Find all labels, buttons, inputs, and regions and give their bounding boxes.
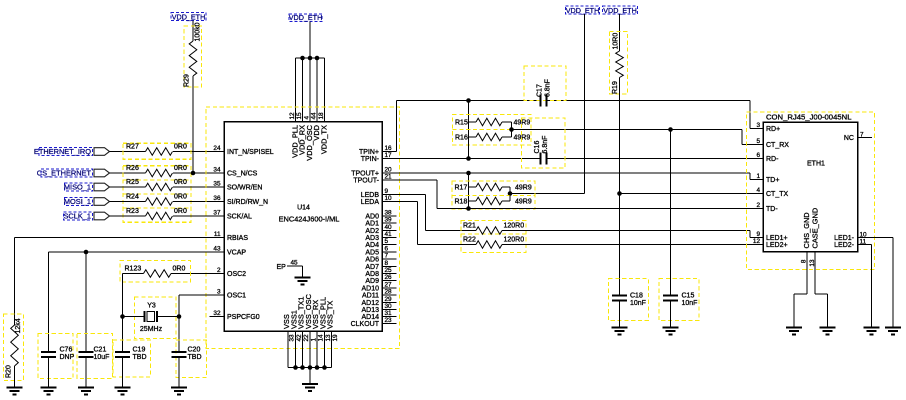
svg-text:AD14: AD14 bbox=[361, 314, 379, 321]
svg-text:AD4: AD4 bbox=[365, 242, 379, 249]
svg-text:33: 33 bbox=[289, 334, 296, 342]
svg-text:2: 2 bbox=[756, 202, 760, 209]
resistor R26 0R0 bbox=[123, 166, 191, 223]
svg-text:PSPCFG0: PSPCFG0 bbox=[227, 314, 260, 321]
wire R24 row bbox=[110, 201, 146, 203]
wire RBIAS bbox=[15, 237, 225, 239]
svg-text:24: 24 bbox=[213, 145, 221, 152]
svg-text:18: 18 bbox=[318, 112, 325, 120]
wire LEDA to R22 bbox=[382, 201, 418, 203]
svg-text:25MHz: 25MHz bbox=[140, 326, 163, 333]
wire VDD_ETH to VDD bus bbox=[309, 22, 311, 59]
svg-text:3: 3 bbox=[756, 122, 760, 129]
wire R17 right bbox=[502, 186, 510, 188]
svg-text:38: 38 bbox=[385, 210, 393, 217]
svg-text:SCK/AL: SCK/AL bbox=[227, 213, 252, 220]
svg-text:17: 17 bbox=[385, 152, 393, 159]
svg-text:R15: R15 bbox=[455, 119, 468, 126]
svg-text:VDD_ETH: VDD_ETH bbox=[172, 12, 206, 21]
svg-text:21: 21 bbox=[385, 174, 393, 181]
svg-text:LED1-: LED1- bbox=[834, 235, 855, 242]
svg-text:EP: EP bbox=[277, 264, 287, 271]
svg-text:0R0: 0R0 bbox=[174, 208, 187, 215]
ground CASE_GND bbox=[820, 327, 836, 329]
svg-text:LEDA: LEDA bbox=[361, 199, 380, 206]
svg-text:R20: R20 bbox=[6, 365, 13, 378]
svg-text:C19: C19 bbox=[133, 347, 146, 354]
svg-text:RBIAS: RBIAS bbox=[227, 235, 248, 242]
svg-text:40: 40 bbox=[385, 224, 393, 231]
capacitor C18 10nF bbox=[609, 279, 649, 321]
net label VDD_ETH (bias) bbox=[566, 6, 600, 14]
svg-text:9: 9 bbox=[385, 188, 389, 195]
svg-text:TPOUT+: TPOUT+ bbox=[351, 170, 379, 177]
wire C20 to ground bbox=[178, 357, 180, 388]
wire R15 right bbox=[502, 121, 512, 123]
capacitor C16 6.8nF bbox=[522, 118, 566, 168]
svg-text:ENC424J600-I/ML: ENC424J600-I/ML bbox=[279, 215, 340, 224]
wire R16 lead bbox=[468, 137, 470, 159]
wire R27 row bbox=[110, 151, 146, 153]
resistor R23 0R0 bbox=[146, 212, 173, 220]
svg-text:MISO_1: MISO_1 bbox=[64, 183, 91, 192]
port arrow ETHERNET_IRQ bbox=[94, 148, 110, 156]
svg-text:R17: R17 bbox=[455, 184, 468, 191]
ground VSS bbox=[302, 383, 318, 385]
wire CT_TX bbox=[620, 193, 764, 195]
svg-text:Y3: Y3 bbox=[147, 303, 156, 310]
resistor R21 120R0 bbox=[461, 221, 526, 253]
svg-text:36: 36 bbox=[213, 195, 221, 202]
svg-text:0R0: 0R0 bbox=[174, 193, 187, 200]
wire R17 lead bbox=[468, 173, 470, 187]
svg-text:AD8: AD8 bbox=[365, 271, 379, 278]
resistor R27 0R0 bbox=[123, 143, 191, 159]
resistor R22 120R0 bbox=[476, 241, 502, 249]
svg-text:AD10: AD10 bbox=[361, 285, 379, 292]
svg-text:AD11: AD11 bbox=[362, 292, 379, 299]
net label VDD_ETH (R19) bbox=[603, 6, 638, 14]
capacitor C17 6.8nF bbox=[524, 66, 566, 101]
svg-text:AD5: AD5 bbox=[365, 249, 379, 256]
svg-text:120R0: 120R0 bbox=[504, 236, 525, 243]
svg-text:0R0: 0R0 bbox=[174, 143, 187, 150]
net label ETHERNET_IRQ bbox=[39, 147, 93, 155]
svg-text:39: 39 bbox=[385, 217, 393, 224]
svg-text:5: 5 bbox=[385, 238, 389, 245]
svg-text:20: 20 bbox=[385, 167, 393, 174]
resistor R19 10R0 bbox=[610, 32, 628, 95]
wire C19 to ground bbox=[122, 357, 124, 388]
connector ETH1 CON_RJ45_J00-0045NL bbox=[753, 113, 867, 267]
svg-text:6.8nF: 6.8nF bbox=[545, 79, 552, 97]
wire TPIN- to RD- bbox=[382, 158, 541, 160]
svg-text:AD12: AD12 bbox=[361, 300, 379, 307]
wire C76 lead bbox=[48, 252, 50, 352]
wire VSS pins to ground bus bbox=[287, 331, 289, 368]
wire CASE_GND bbox=[814, 252, 816, 295]
svg-text:11: 11 bbox=[214, 231, 221, 238]
ground C19 bbox=[115, 387, 131, 389]
svg-text:C17: C17 bbox=[537, 84, 544, 97]
svg-text:OSC2: OSC2 bbox=[227, 271, 246, 278]
svg-text:0R0: 0R0 bbox=[174, 179, 187, 186]
yellow variant box around U14 bbox=[206, 107, 400, 349]
wire VCAP bbox=[49, 251, 225, 253]
svg-text:0R0: 0R0 bbox=[173, 265, 186, 272]
wire VDD_ETH to R29 bbox=[192, 21, 194, 42]
wire C20 lead bbox=[178, 317, 180, 353]
svg-text:VCAP: VCAP bbox=[227, 249, 246, 256]
wire C21 lead bbox=[85, 252, 87, 352]
svg-text:INT_N/SPISEL: INT_N/SPISEL bbox=[227, 149, 274, 156]
net label VDD_ETH (above U14) bbox=[289, 14, 322, 22]
svg-text:37: 37 bbox=[213, 210, 221, 217]
svg-text:42: 42 bbox=[296, 334, 303, 342]
svg-text:U14: U14 bbox=[297, 205, 310, 212]
ground C21 bbox=[78, 387, 94, 389]
svg-text:AD13: AD13 bbox=[361, 307, 379, 314]
svg-text:DNP: DNP bbox=[60, 354, 75, 361]
svg-text:R24: R24 bbox=[126, 193, 139, 200]
wire OSC2 row bbox=[171, 273, 224, 275]
ground R20 bbox=[7, 387, 23, 389]
resistor R15 49R9 bbox=[453, 115, 532, 146]
port arrow MOSI_1 bbox=[94, 198, 110, 206]
svg-text:4: 4 bbox=[756, 187, 760, 194]
capacitor C15 10nF bbox=[659, 279, 699, 321]
svg-text:R16: R16 bbox=[455, 134, 468, 141]
svg-text:SI/RD/RW_N: SI/RD/RW_N bbox=[227, 199, 268, 206]
svg-text:6.8nF: 6.8nF bbox=[542, 136, 549, 154]
svg-text:LEDB: LEDB bbox=[361, 192, 380, 199]
svg-text:15: 15 bbox=[296, 112, 303, 120]
wire R19 to CT_TX node bbox=[619, 78, 621, 296]
svg-text:7: 7 bbox=[385, 253, 389, 260]
svg-text:VDD_ETH: VDD_ETH bbox=[289, 13, 323, 22]
resistor R25 0R0 bbox=[146, 183, 173, 191]
svg-text:12: 12 bbox=[753, 238, 761, 245]
svg-text:45: 45 bbox=[291, 260, 299, 267]
svg-text:44: 44 bbox=[311, 112, 318, 120]
svg-text:100k0: 100k0 bbox=[195, 22, 202, 41]
svg-text:R18: R18 bbox=[455, 198, 468, 205]
wire EP pad bbox=[287, 265, 303, 267]
ground C18 bbox=[612, 327, 628, 329]
resistor R16 49R9 bbox=[476, 133, 502, 141]
svg-text:49R9: 49R9 bbox=[515, 198, 532, 205]
svg-text:25: 25 bbox=[385, 267, 393, 274]
svg-text:CLKOUT: CLKOUT bbox=[351, 321, 380, 328]
svg-text:TPIN+: TPIN+ bbox=[359, 149, 379, 156]
ground C15 bbox=[663, 327, 679, 329]
wire C15 lead bbox=[670, 130, 672, 296]
svg-text:R27: R27 bbox=[126, 143, 139, 150]
svg-text:19: 19 bbox=[332, 334, 339, 342]
ground C20 bbox=[171, 387, 187, 389]
svg-text:LED2-: LED2- bbox=[834, 242, 855, 249]
svg-text:12k4: 12k4 bbox=[15, 318, 22, 333]
svg-text:22: 22 bbox=[303, 334, 310, 342]
svg-text:AD7: AD7 bbox=[365, 264, 379, 271]
svg-text:C20: C20 bbox=[188, 347, 201, 354]
capacitor C76 DNP bbox=[38, 334, 73, 379]
svg-text:R25: R25 bbox=[126, 179, 139, 186]
svg-text:10nF: 10nF bbox=[630, 300, 646, 307]
svg-text:9: 9 bbox=[756, 231, 760, 238]
wire R21 to LED1+ bbox=[502, 230, 750, 232]
svg-text:VDD_TX: VDD_TX bbox=[320, 125, 329, 154]
wire R23 row bbox=[110, 215, 146, 217]
port arrow CS_ETHERNET bbox=[94, 169, 110, 177]
svg-text:10uF: 10uF bbox=[94, 354, 110, 361]
wire R20 to ground bbox=[14, 366, 16, 388]
net label MOSI_1 bbox=[65, 197, 93, 205]
wire LED2- bbox=[858, 244, 872, 246]
svg-text:6: 6 bbox=[756, 152, 760, 159]
wire C76 to ground bbox=[48, 357, 50, 388]
svg-text:TBD: TBD bbox=[133, 354, 147, 361]
capacitor C21 10uF bbox=[77, 334, 113, 379]
capacitor C20 TBD bbox=[176, 340, 207, 378]
svg-text:27: 27 bbox=[385, 282, 393, 289]
svg-text:TPIN-: TPIN- bbox=[361, 156, 380, 163]
net label MISO_1 bbox=[65, 183, 93, 191]
svg-text:NC: NC bbox=[844, 135, 854, 142]
svg-text:AD1: AD1 bbox=[365, 220, 379, 227]
wire R15 lead bbox=[468, 101, 470, 123]
wire VDD bus bbox=[296, 57, 325, 59]
svg-text:28: 28 bbox=[385, 289, 393, 296]
wire TPOUT- to TD- bbox=[382, 179, 437, 181]
svg-text:C76: C76 bbox=[60, 347, 73, 354]
svg-text:VDD_ETH: VDD_ETH bbox=[566, 6, 600, 15]
op-amp U14 ENC424J600-I/ML (ethernet controller IC) bbox=[213, 112, 392, 342]
svg-text:ETH1: ETH1 bbox=[807, 161, 825, 168]
svg-text:30: 30 bbox=[385, 303, 393, 310]
svg-text:1: 1 bbox=[311, 338, 318, 342]
svg-text:C18: C18 bbox=[630, 293, 643, 300]
svg-text:R123: R123 bbox=[125, 265, 142, 272]
wire R16 right bbox=[502, 136, 512, 138]
svg-text:C21: C21 bbox=[94, 347, 107, 354]
svg-text:13: 13 bbox=[325, 334, 332, 342]
svg-text:VSS_TX: VSS_TX bbox=[326, 301, 335, 329]
wire OSC1 row bbox=[179, 294, 224, 296]
svg-text:34: 34 bbox=[213, 167, 221, 174]
svg-text:TBD: TBD bbox=[188, 354, 202, 361]
resistor R123 0R0 bbox=[120, 261, 191, 283]
svg-text:4: 4 bbox=[304, 116, 311, 120]
svg-text:TPOUT-: TPOUT- bbox=[353, 177, 379, 184]
port arrow SCLK_1 bbox=[94, 212, 110, 220]
svg-text:CASE_GND: CASE_GND bbox=[811, 208, 820, 249]
svg-text:CON_RJ45_J00-0045NL: CON_RJ45_J00-0045NL bbox=[766, 113, 852, 122]
wire C15 to ground bbox=[670, 301, 672, 328]
wire CT_RX bbox=[512, 129, 743, 131]
ground C76 bbox=[41, 387, 57, 389]
svg-text:41: 41 bbox=[385, 231, 393, 238]
wire TPIN+ to RD+ bbox=[382, 151, 397, 153]
svg-text:5: 5 bbox=[756, 138, 760, 145]
resistor R29 100k0 bbox=[184, 26, 202, 87]
svg-text:2: 2 bbox=[217, 267, 221, 274]
svg-text:23: 23 bbox=[385, 317, 393, 324]
svg-text:43: 43 bbox=[213, 246, 221, 253]
svg-text:R29: R29 bbox=[184, 74, 191, 87]
ground CHS_GND bbox=[786, 327, 802, 329]
wire R22 to LED2+ bbox=[502, 244, 763, 246]
svg-text:10R0: 10R0 bbox=[613, 33, 620, 50]
svg-text:0R0: 0R0 bbox=[174, 165, 187, 172]
svg-text:CT_RX: CT_RX bbox=[766, 142, 789, 149]
capacitor C19 TBD bbox=[113, 340, 151, 377]
wire CHS_GND bbox=[806, 252, 808, 295]
wire pin32 stub bbox=[210, 316, 225, 318]
svg-text:C15: C15 bbox=[682, 293, 695, 300]
svg-text:R19: R19 bbox=[612, 81, 619, 94]
svg-text:26: 26 bbox=[385, 274, 393, 281]
ground LED1- bbox=[885, 327, 901, 329]
svg-text:VDD_ETH: VDD_ETH bbox=[603, 6, 637, 15]
svg-text:8: 8 bbox=[385, 260, 389, 267]
svg-text:LED1+: LED1+ bbox=[766, 235, 788, 242]
wire TPOUT+ to TD+ bbox=[382, 172, 750, 174]
crystal Y3 25MHz bbox=[135, 297, 177, 339]
wire VDD_ETH to R19 bbox=[619, 14, 621, 51]
svg-text:14: 14 bbox=[318, 334, 325, 342]
svg-text:LED2+: LED2+ bbox=[766, 242, 788, 249]
svg-text:R22: R22 bbox=[463, 236, 476, 243]
svg-text:10nF: 10nF bbox=[682, 300, 698, 307]
svg-text:TD-: TD- bbox=[766, 206, 778, 213]
svg-text:31: 31 bbox=[385, 310, 393, 317]
resistor R20 12k4 bbox=[4, 314, 24, 381]
svg-text:SO/WR/EN: SO/WR/EN bbox=[227, 184, 262, 191]
resistor R18 49R9 bbox=[476, 197, 502, 205]
svg-text:CS_N/CS: CS_N/CS bbox=[227, 170, 258, 177]
svg-text:49R9: 49R9 bbox=[515, 184, 532, 191]
svg-text:AD2: AD2 bbox=[365, 228, 379, 235]
svg-text:AD0: AD0 bbox=[365, 213, 379, 220]
svg-text:CS_ETHERNET: CS_ETHERNET bbox=[37, 169, 92, 178]
yellow variant box around ETH1 bbox=[747, 112, 875, 270]
svg-text:29: 29 bbox=[385, 296, 393, 303]
svg-text:ETHERNET_IRQ: ETHERNET_IRQ bbox=[34, 147, 91, 156]
ground LED2- bbox=[864, 327, 880, 329]
net label SCLK_1 bbox=[64, 212, 93, 220]
svg-text:12: 12 bbox=[289, 112, 296, 120]
ground EP bbox=[295, 277, 311, 279]
svg-text:1: 1 bbox=[756, 173, 760, 180]
wire R18 lead bbox=[468, 201, 470, 209]
svg-text:MOSI_1: MOSI_1 bbox=[64, 197, 91, 206]
net label VDD_ETH (top left) bbox=[171, 13, 206, 21]
resistor R17 49R9 bbox=[452, 181, 535, 209]
svg-text:10: 10 bbox=[385, 195, 393, 202]
wire R18 right bbox=[502, 200, 510, 202]
svg-text:R26: R26 bbox=[126, 165, 139, 172]
svg-text:3: 3 bbox=[217, 289, 221, 296]
svg-text:16: 16 bbox=[385, 145, 393, 152]
resistor R24 0R0 bbox=[146, 198, 173, 206]
svg-text:OSC1: OSC1 bbox=[227, 292, 246, 299]
svg-text:32: 32 bbox=[213, 310, 221, 317]
svg-text:C16: C16 bbox=[534, 141, 541, 154]
svg-text:6: 6 bbox=[385, 246, 389, 253]
wire C19 lead bbox=[122, 317, 124, 353]
wire C18 to ground bbox=[619, 301, 621, 328]
svg-text:AD6: AD6 bbox=[365, 256, 379, 263]
wire R25 row bbox=[110, 186, 146, 188]
svg-text:8: 8 bbox=[801, 259, 808, 263]
svg-text:RD-: RD- bbox=[766, 156, 779, 163]
svg-text:SCLK_1: SCLK_1 bbox=[63, 212, 91, 221]
svg-text:AD3: AD3 bbox=[365, 235, 379, 242]
wire AD0-AD14/CLKOUT stubs bbox=[382, 215, 397, 217]
port arrow MISO_1 bbox=[94, 183, 110, 191]
net label CS_ETHERNET bbox=[41, 169, 93, 177]
svg-text:35: 35 bbox=[213, 181, 221, 188]
wire R123 to crystal node bbox=[122, 274, 124, 317]
wire VDD_ETH bias drop bbox=[584, 14, 586, 194]
svg-text:AD9: AD9 bbox=[365, 278, 379, 285]
svg-text:CT_TX: CT_TX bbox=[766, 191, 789, 198]
svg-text:R23: R23 bbox=[126, 208, 139, 215]
svg-text:R21: R21 bbox=[463, 222, 476, 229]
wire LED1- bbox=[858, 237, 894, 239]
svg-text:TD+: TD+ bbox=[766, 177, 779, 184]
svg-text:RD+: RD+ bbox=[766, 126, 780, 133]
wire C21 to ground bbox=[85, 357, 87, 388]
svg-text:120R0: 120R0 bbox=[504, 222, 525, 229]
wire R29 to CS net bbox=[192, 76, 194, 173]
wire LEDB to R21 bbox=[382, 194, 426, 196]
wire R26 row bbox=[110, 172, 146, 174]
wire NC stub bbox=[858, 137, 873, 139]
